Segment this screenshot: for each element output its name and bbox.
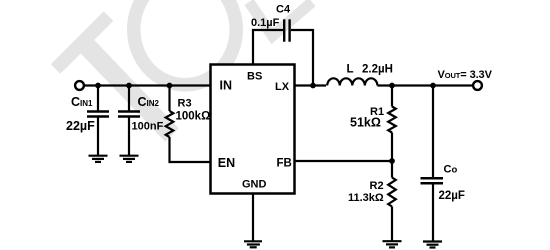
ground CIN2	[120, 156, 139, 162]
capacitor CIN1	[87, 112, 109, 117]
svg-text:C4: C4	[276, 4, 291, 16]
wire CIN2 bottom lead	[128, 116, 130, 156]
wire R1 bottom lead	[391, 133, 393, 162]
svg-text:2.2µH: 2.2µH	[362, 63, 393, 75]
ground IC	[244, 241, 262, 247]
resistor R2	[388, 178, 396, 207]
wire CO top lead	[432, 86, 434, 179]
wire R2 bottom lead	[391, 207, 393, 242]
svg-text:LX: LX	[275, 81, 290, 93]
wire BS bootstrap left	[253, 30, 283, 64]
ground CO	[423, 242, 442, 248]
wire CIN1 bottom lead	[97, 116, 99, 156]
capacitor C4	[284, 19, 289, 41]
watermark stroke: letter O ring	[134, 0, 237, 85]
svg-text:L: L	[347, 63, 354, 75]
svg-text:0.1µF: 0.1µF	[251, 17, 280, 29]
svg-text:VOUT= 3.3V: VOUT= 3.3V	[438, 69, 493, 81]
watermark stroke: letter P bottom V tip	[249, 2, 312, 36]
svg-text:R2: R2	[370, 180, 384, 192]
output terminal	[473, 81, 482, 90]
node FB junction	[389, 158, 395, 164]
resistor R1	[388, 107, 396, 133]
watermark stroke: letter T stem	[82, 41, 172, 135]
wire inductor to output terminal	[377, 84, 473, 86]
wire IC GND lead	[252, 194, 254, 241]
wire FB feedback	[295, 160, 392, 162]
wire C4 right to LX node	[291, 30, 313, 86]
ground CIN1	[89, 156, 108, 162]
node CIN1 junction	[95, 83, 101, 89]
node R3 junction	[167, 83, 173, 89]
wire R2 top lead	[391, 161, 393, 178]
svg-text:51kΩ: 51kΩ	[350, 116, 381, 130]
svg-text:22µF: 22µF	[66, 119, 95, 133]
svg-text:FB: FB	[277, 158, 292, 170]
node CIN2 junction	[126, 83, 132, 89]
ground R2	[383, 241, 402, 247]
svg-text:22µF: 22µF	[439, 190, 465, 202]
inductor L	[327, 78, 377, 85]
svg-text:100kΩ: 100kΩ	[176, 111, 211, 123]
wire R1 top lead	[391, 86, 393, 107]
wire CIN1 top lead	[97, 86, 99, 112]
wire R3 bottom lead to EN	[170, 137, 211, 162]
svg-text:EN: EN	[218, 156, 235, 170]
svg-text:11.3kΩ: 11.3kΩ	[348, 192, 384, 204]
svg-text:CIN1: CIN1	[71, 95, 93, 109]
svg-text:R3: R3	[178, 98, 192, 110]
node CO junction	[430, 83, 436, 89]
IC U1 regulator box	[211, 65, 295, 194]
capacitor CIN2	[118, 112, 140, 117]
svg-text:IN: IN	[220, 79, 233, 93]
watermark stroke: letter T bar	[56, 16, 109, 69]
svg-text:BS: BS	[247, 70, 262, 82]
input terminal	[75, 81, 84, 90]
resistor R3	[166, 111, 174, 137]
svg-text:100nF: 100nF	[132, 121, 164, 133]
wire main input rail	[84, 84, 211, 86]
wire CO bottom lead	[432, 183, 434, 241]
capacitor CO	[421, 178, 444, 183]
wire CIN2 top lead	[128, 86, 130, 112]
node R1 junction	[389, 83, 395, 89]
wire LX output	[295, 84, 326, 86]
wire R3 top lead	[168, 86, 170, 112]
svg-text:GND: GND	[242, 179, 267, 191]
svg-text:Co: Co	[444, 164, 458, 176]
node LX/C4 junction	[310, 83, 316, 89]
